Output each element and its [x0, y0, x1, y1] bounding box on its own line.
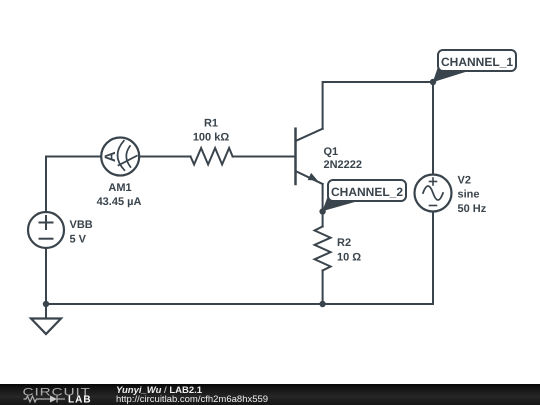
- svg-text:LAB: LAB: [68, 395, 92, 405]
- resistor R2: [315, 227, 331, 271]
- svg-text:2N2222: 2N2222: [324, 159, 363, 171]
- footer bar: [0, 384, 540, 405]
- svg-text:5 V: 5 V: [70, 234, 87, 246]
- svg-text:CHANNEL_1: CHANNEL_1: [441, 55, 513, 69]
- node CHANNEL_1 flag: [433, 50, 516, 82]
- wire left-rail top (VBB to main wire): [46, 157, 101, 213]
- wire VBB bottom to ground node: [45, 248, 47, 304]
- svg-text:A: A: [102, 151, 119, 162]
- ammeter AM1: [101, 138, 139, 176]
- svg-text:10 Ω: 10 Ω: [337, 252, 361, 264]
- svg-text:CHANNEL_2: CHANNEL_2: [331, 185, 403, 199]
- voltage source VBB: [28, 212, 64, 248]
- svg-text:AM1: AM1: [108, 182, 131, 194]
- wire emitter to R2: [322, 184, 324, 227]
- junction dot at CHANNEL_2 node: [319, 208, 325, 214]
- svg-text:Q1: Q1: [324, 146, 339, 158]
- junction dot at ground node: [43, 301, 49, 307]
- voltage source V2: [415, 175, 452, 212]
- wire right rail top (CHANNEL_1 node to V2): [432, 82, 434, 175]
- wire ammeter to R1: [139, 156, 191, 158]
- svg-text:R1: R1: [204, 118, 218, 130]
- wire V2 bottom to bottom rail: [432, 212, 434, 305]
- wire bottom rail: [46, 303, 433, 305]
- node CHANNEL_2 flag: [322, 180, 406, 211]
- svg-text:R2: R2: [337, 237, 351, 249]
- ground: [31, 304, 61, 334]
- svg-text:50 Hz: 50 Hz: [458, 203, 487, 215]
- junction dot at CHANNEL_1 node: [430, 79, 436, 85]
- svg-text:VBB: VBB: [70, 219, 93, 231]
- junction dot at R2 bottom: [319, 301, 325, 307]
- svg-text:100 kΩ: 100 kΩ: [193, 132, 230, 144]
- svg-text:43.45 µA: 43.45 µA: [97, 196, 142, 208]
- wire R1 to Q1 base: [233, 156, 296, 158]
- wire collector riser and top rail: [323, 82, 433, 129]
- resistor R1: [191, 148, 233, 165]
- wire R2 to bottom rail: [322, 271, 324, 305]
- footer title text: [116, 386, 268, 405]
- svg-text:sine: sine: [458, 189, 480, 201]
- CircuitLab logo: [0, 384, 110, 405]
- transistor Q1: [296, 129, 323, 184]
- svg-text:V2: V2: [458, 175, 471, 187]
